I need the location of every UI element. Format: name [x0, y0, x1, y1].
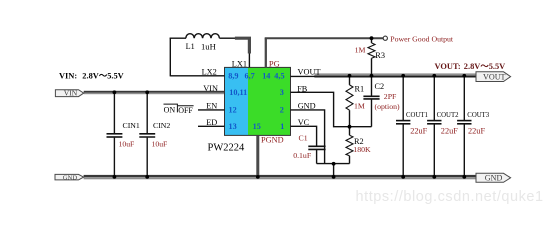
svg-text:2.8V～5.5V: 2.8V～5.5V: [464, 62, 505, 71]
wire LX1 thick elbow: [235, 38, 250, 53]
wire EN stub: [198, 109, 225, 111]
wire VOUT rail: [314, 73, 476, 75]
svg-text:2.8V～5.5V: 2.8V～5.5V: [82, 72, 123, 81]
svg-text:ON: ON: [164, 105, 176, 114]
svg-text:OFF: OFF: [178, 106, 193, 115]
svg-text:PW2224: PW2224: [208, 142, 246, 153]
Power Good terminal circle: [383, 36, 387, 40]
junction dot drop/GND rail: [332, 175, 336, 179]
svg-text:Power Good Output: Power Good Output: [390, 34, 454, 43]
svg-text:GND: GND: [485, 173, 503, 182]
svg-text:22uF: 22uF: [468, 127, 485, 136]
svg-text:PGND: PGND: [261, 135, 284, 144]
port GND right: [476, 173, 511, 182]
ON OFF label: [164, 104, 194, 115]
capacitor CIN1: [107, 93, 140, 177]
svg-text:VOUT: VOUT: [298, 67, 321, 76]
wire inductor loop top left: [170, 37, 186, 39]
svg-text:C2: C2: [375, 82, 385, 91]
wire PG vertical: [265, 38, 267, 67]
capacitor C1: [293, 133, 325, 163]
capacitor C2: [363, 76, 400, 127]
svg-text:22uF: 22uF: [410, 127, 427, 136]
svg-text:6,7: 6,7: [245, 72, 255, 81]
pin name labels: [202, 60, 321, 127]
svg-text:C1: C1: [299, 133, 308, 142]
wire GND drop to rail: [333, 164, 335, 177]
wire LX2 stub: [170, 75, 224, 77]
capacitor CIN2: [139, 93, 170, 177]
junction dots on VIN rail: [113, 90, 117, 94]
svg-text:R1: R1: [355, 85, 365, 94]
junction dot PG wire / R3: [370, 36, 374, 40]
node FB junction: [348, 125, 352, 129]
resistor R1: [346, 76, 365, 127]
svg-text:15: 15: [253, 122, 261, 131]
svg-text:LX2: LX2: [202, 67, 217, 76]
svg-text:GND: GND: [298, 102, 316, 111]
svg-text:COUT1: COUT1: [406, 112, 428, 119]
svg-text:0.1uF: 0.1uF: [293, 151, 312, 160]
svg-text:(option): (option): [375, 102, 401, 111]
wire LX1 drop to chip: [248, 54, 250, 68]
svg-text:LX1: LX1: [232, 60, 247, 69]
wire VIN rail: [84, 91, 225, 93]
svg-text:COUT2: COUT2: [437, 112, 460, 119]
svg-text:CIN1: CIN1: [123, 121, 140, 130]
op-amp U1 PW2224 body: [225, 67, 249, 135]
wire PGND thick: [256, 135, 259, 176]
svg-text:14: 14: [262, 72, 270, 81]
svg-text:GND: GND: [63, 174, 78, 181]
junction dots VOUT rail: [348, 74, 352, 78]
svg-text:10,11: 10,11: [229, 88, 247, 97]
svg-text:180K: 180K: [353, 145, 371, 154]
wire VC net: [291, 126, 317, 145]
wire PG horizontal: [265, 37, 384, 39]
wire bottom node horizontal: [317, 163, 350, 165]
svg-text:1M: 1M: [355, 46, 366, 55]
svg-text:3: 3: [280, 88, 284, 97]
svg-text:R3: R3: [375, 51, 385, 60]
port VOUT: [476, 72, 511, 82]
capacitor COUT2: [427, 76, 459, 177]
port VIN: [55, 88, 83, 97]
svg-text:22uF: 22uF: [441, 127, 458, 136]
svg-text:VIN:: VIN:: [59, 72, 77, 81]
svg-text:10uF: 10uF: [119, 140, 135, 149]
svg-text:VOUT:: VOUT:: [435, 62, 461, 71]
svg-text:1: 1: [280, 122, 284, 131]
svg-text:VOUT: VOUT: [483, 72, 506, 81]
wire GND rail: [84, 175, 476, 177]
svg-text:2: 2: [280, 106, 284, 115]
pin numbers: [228, 72, 284, 131]
wire GND pin net: [291, 110, 325, 164]
svg-text:EN: EN: [206, 101, 217, 110]
svg-text:1M: 1M: [354, 102, 365, 111]
inductor L1 1uH: [186, 34, 220, 39]
wire FB net: [291, 92, 372, 126]
svg-text:https://blog.csdn.net/quke1: https://blog.csdn.net/quke1: [356, 189, 544, 205]
svg-text:CIN2: CIN2: [153, 121, 170, 130]
svg-text:4,5: 4,5: [274, 72, 284, 81]
svg-text:VIN: VIN: [64, 88, 78, 97]
svg-text:12: 12: [229, 106, 237, 115]
resistor R3: [355, 38, 385, 75]
svg-text:VC: VC: [298, 118, 310, 127]
junction dot node/drop: [332, 162, 336, 166]
wire VOUT stub: [291, 75, 316, 77]
wire inductor loop top right: [219, 37, 235, 39]
junction dots GND rail: [113, 175, 117, 179]
svg-text:PG: PG: [269, 58, 280, 68]
svg-text:10uF: 10uF: [152, 140, 168, 149]
svg-text:COUT3: COUT3: [467, 112, 490, 119]
svg-text:13: 13: [229, 122, 237, 131]
svg-text:2PF: 2PF: [384, 92, 397, 101]
junction dot PGND-GND: [256, 175, 260, 179]
capacitor COUT1: [396, 76, 428, 177]
svg-text:8,9: 8,9: [228, 72, 238, 81]
svg-text:L1: L1: [186, 42, 195, 51]
wire inductor loop left vertical: [169, 38, 171, 77]
svg-text:VIN: VIN: [203, 84, 218, 93]
svg-text:1uH: 1uH: [201, 41, 216, 51]
resistor R2: [346, 127, 371, 164]
wire ED stub: [198, 125, 225, 127]
port GND left: [55, 174, 84, 181]
capacitor COUT3: [457, 76, 490, 177]
